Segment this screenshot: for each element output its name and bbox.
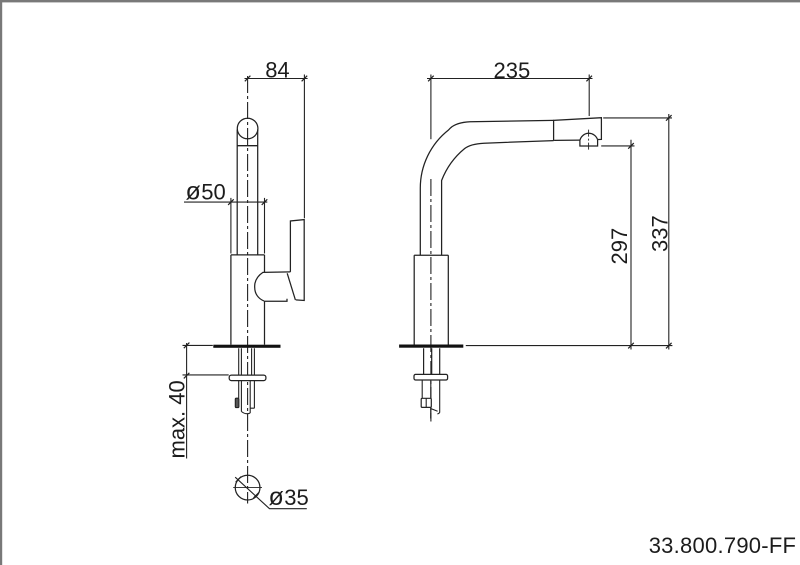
nut facet line (side) — [425, 398, 427, 407]
extension line max40 top — [183, 344, 213, 346]
shank tube lower (front) — [239, 381, 255, 413]
clamp screw (front) — [235, 398, 239, 407]
aerator body — [580, 140, 598, 146]
svg-text:ø35: ø35 — [269, 483, 309, 511]
svg-text:84: 84 — [265, 58, 289, 83]
svg-text:235: 235 — [494, 58, 531, 83]
extension line 235 left (axis) — [430, 75, 432, 140]
handle lever — [290, 220, 304, 301]
hose outer line (side) — [437, 380, 439, 414]
tube left edge — [236, 130, 238, 256]
aerator centerline — [588, 130, 590, 150]
extension line countertop — [466, 345, 673, 347]
side column right edge — [447, 255, 449, 344]
extension line 235 right — [588, 75, 590, 117]
extension line o50 right — [264, 198, 266, 254]
leader tick lower — [254, 492, 260, 498]
extension line aerator bottom — [601, 145, 634, 147]
tick max40 bottom — [184, 373, 190, 379]
tube right edge — [257, 130, 259, 256]
svg-text:max. 40: max. 40 — [165, 380, 190, 458]
dimension 84 line — [245, 78, 308, 80]
handle hub — [255, 272, 291, 301]
tick 235 right — [586, 76, 592, 82]
dimension o50 line — [184, 201, 267, 203]
tick 84 left — [245, 76, 251, 82]
shank tube upper (side) — [424, 348, 440, 374]
tick o50 right — [262, 199, 268, 205]
leader line o35 — [235, 477, 307, 509]
threaded rod (side) — [422, 380, 431, 398]
mounting plate (side) — [399, 345, 463, 348]
column right edge upper — [264, 255, 266, 273]
shank tube end curve (front) — [241, 412, 250, 414]
dimension 235 line — [427, 78, 593, 80]
svg-text:297: 297 — [607, 228, 632, 265]
spout top circle (tube end) — [237, 118, 258, 139]
tick 297 bottom — [628, 343, 634, 349]
frame border left — [0, 0, 2, 565]
spout inner profile — [442, 141, 554, 256]
svg-text:ø50: ø50 — [186, 178, 226, 206]
centerline front column — [247, 76, 249, 504]
mounting nut (side) — [421, 398, 431, 407]
centerline side column — [430, 179, 432, 422]
extension line o50 left — [230, 198, 232, 254]
shank tube upper (front) — [239, 348, 255, 375]
hole crosshair horizontal — [233, 487, 262, 489]
dimension 297 line — [630, 140, 632, 350]
hose bottom diagonal (side) — [431, 409, 437, 412]
svg-text:337: 337 — [648, 215, 673, 252]
dimension max40 line — [186, 343, 188, 459]
aerator dome — [580, 133, 598, 140]
tick 337 top — [666, 115, 672, 121]
tube joint line — [237, 145, 258, 147]
side column left edge — [413, 255, 415, 344]
spray head bottom left edge — [554, 139, 580, 141]
tick o50 left — [228, 199, 234, 205]
leader tick upper — [236, 477, 242, 483]
rod end below nut (side) — [430, 407, 432, 418]
lever lower diagonal edge — [287, 273, 295, 300]
tick 297 top — [628, 143, 634, 149]
hub bottom edge — [264, 299, 287, 302]
mounting washer (front) — [229, 375, 266, 381]
svg-text:33.800.790-FF: 33.800.790-FF — [649, 533, 797, 558]
mounting plate (front) — [213, 345, 280, 348]
extension line max40 bottom — [183, 374, 229, 376]
extension line head top — [603, 117, 672, 119]
side step line — [414, 254, 448, 256]
tick 235 left — [428, 76, 434, 82]
column step line — [231, 254, 265, 256]
extension line 84 right — [303, 75, 305, 219]
spray head — [554, 118, 602, 141]
column left edge — [230, 255, 232, 345]
tick 337 bottom — [666, 343, 672, 349]
dimension 337 line — [668, 114, 670, 350]
hole circle o35 — [235, 475, 260, 500]
tick max40 top — [184, 343, 190, 349]
tick 84 right — [302, 76, 308, 82]
frame border top — [0, 0, 800, 2]
mounting washer (side) — [414, 374, 448, 380]
spout outer profile — [420, 120, 553, 255]
column right edge lower — [264, 301, 266, 345]
